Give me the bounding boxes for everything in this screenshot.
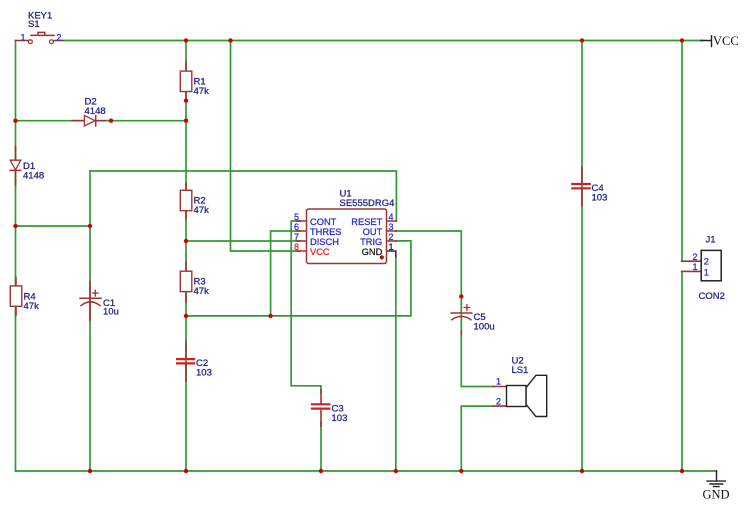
svg-text:6: 6 (294, 222, 299, 232)
wire C1 branch vertical x90 (89, 171, 91, 471)
op-amp U1 left pin stubs 5,6,7 (297, 221, 307, 241)
node C1 bottom rail (88, 469, 92, 473)
wire GND pin1 to rail (395, 256, 397, 471)
node C2 bottom rail (184, 469, 188, 473)
GND symbol drop wire (716, 471, 718, 480)
svg-text:4: 4 (389, 212, 394, 222)
capacitor C5 bottom stub tick (460, 331, 462, 335)
node D2 left (13, 119, 17, 123)
op-amp U1 pin 8 VCC stub (297, 250, 307, 252)
speaker U2 pin stubs (493, 387, 507, 407)
svg-text:4148: 4148 (85, 106, 106, 117)
capacitor C3 stubs (320, 390, 322, 426)
svg-text:1: 1 (704, 268, 709, 278)
svg-text:GND: GND (703, 488, 730, 502)
node THRES junction (268, 314, 272, 318)
node speaker rail (459, 469, 463, 473)
svg-text:103: 103 (592, 193, 608, 204)
wire C3 bottom to rail (320, 422, 322, 471)
wire top VCC rail (64, 40, 703, 42)
node J1 bottom rail (680, 469, 684, 473)
diode D2 stubs (72, 120, 105, 122)
node y226 right (88, 224, 92, 228)
svg-text:CON2: CON2 (699, 291, 725, 302)
wire TRIG row y315.9 (186, 241, 411, 316)
resistor R3 stubs (185, 262, 187, 302)
diode D1 triangle (10, 160, 21, 170)
wire D2 row y120.7 (16, 120, 187, 122)
node C5 top (459, 294, 463, 298)
wire OUT pin3 to C5 and speaker pin1 (396, 231, 494, 387)
svg-text:1: 1 (496, 377, 501, 387)
node C3 bottom rail (319, 469, 323, 473)
switch S1 actuator bar (31, 32, 54, 35)
svg-text:2: 2 (692, 252, 697, 262)
capacitor C4 stubs (581, 167, 583, 206)
svg-text:1: 1 (21, 32, 26, 42)
svg-text:8: 8 (294, 242, 299, 252)
capacitor C4 bottom plate (572, 187, 589, 189)
resistor R2 body (180, 190, 192, 210)
connector J1 body (701, 250, 721, 280)
svg-text:47k: 47k (24, 301, 40, 312)
diode D1 cathode bar (10, 169, 21, 171)
svg-text:SE555DRG4: SE555DRG4 (340, 198, 395, 209)
svg-text:2: 2 (389, 232, 394, 242)
svg-text:J1: J1 (706, 235, 716, 246)
node R3 C2 junction (184, 314, 188, 318)
svg-text:103: 103 (196, 368, 212, 379)
capacitor C5 plus sign (464, 305, 470, 311)
ground symbol bars (707, 481, 725, 487)
svg-text:OUT: OUT (363, 227, 383, 237)
svg-text:VCC: VCC (713, 34, 739, 48)
wire C4 branch x582 (581, 41, 583, 472)
speaker U2 body square (507, 386, 527, 407)
svg-text:47k: 47k (194, 86, 210, 97)
svg-text:TRIG: TRIG (360, 237, 382, 247)
wire long horizontal y171 to RESET (90, 171, 396, 221)
node y226 left (13, 224, 17, 228)
node top rail x186 (184, 38, 188, 42)
wire speaker pin2 to rail (461, 406, 493, 471)
svg-text:2: 2 (704, 257, 709, 267)
svg-text:10u: 10u (103, 307, 119, 318)
svg-text:103: 103 (332, 413, 348, 424)
capacitor C5 curved plate (452, 316, 471, 319)
node junction dots (13, 38, 684, 473)
switch S1 pin stubs (16, 40, 64, 42)
node R2 R3 junction (184, 239, 188, 243)
svg-text:1: 1 (389, 242, 394, 252)
svg-text:47k: 47k (194, 205, 210, 216)
diode D1 stubs (15, 147, 17, 185)
wire left vertical from S1 pin1 down to bottom rail (15, 41, 17, 472)
svg-text:100u: 100u (474, 322, 495, 333)
wire VCC pin8 branch (231, 41, 301, 252)
node top rail x682 (680, 38, 684, 42)
capacitor C1 stubs (89, 282, 91, 321)
capacitor C1 plus sign (93, 290, 99, 296)
capacitor C1 top plate (80, 297, 101, 299)
node R1 bottom (184, 98, 188, 102)
wire J1 branch lower (681, 271, 683, 471)
capacitor C4 top plate (572, 183, 589, 185)
wire THRES pin6 branch (271, 231, 300, 316)
capacitor C3 bottom plate (312, 408, 329, 410)
op-amp U1 pin 1 GND stub (387, 251, 396, 257)
wire node junction row y226 (16, 225, 91, 227)
node D2 cathode (109, 119, 113, 123)
svg-text:2: 2 (496, 396, 501, 406)
wire bottom rail (16, 470, 717, 472)
node C4 bottom rail (580, 469, 584, 473)
resistor R1 body (180, 71, 192, 91)
svg-text:VCC: VCC (310, 247, 330, 257)
node top rail x582 (580, 38, 584, 42)
capacitor C3 top plate (312, 403, 329, 405)
svg-text:5: 5 (294, 212, 299, 222)
switch S1 contact circle pin1 (29, 40, 33, 44)
svg-text:3: 3 (389, 222, 394, 232)
svg-text:GND: GND (362, 247, 383, 257)
capacitor C2 stubs (185, 341, 187, 381)
op-amp U1 body (307, 209, 387, 264)
resistor R3 body (180, 271, 192, 291)
wire CONT pin5 to C3 (291, 221, 321, 392)
connector J1 pin stubs (682, 261, 702, 271)
resistor R4 stubs (15, 278, 17, 316)
node GND pin rail (394, 469, 398, 473)
svg-text:2: 2 (57, 32, 62, 42)
VCC supply symbol (701, 36, 712, 47)
svg-text:LS1: LS1 (512, 365, 529, 376)
svg-text:47k: 47k (194, 286, 210, 297)
node D2 x186 (184, 119, 188, 123)
op-amp U1 polarity dot (380, 255, 384, 259)
svg-text:DISCH: DISCH (310, 237, 339, 247)
op-amp U1 right pin stubs 4,3,2 (387, 221, 397, 241)
diode D2 cathode bar (95, 115, 97, 126)
svg-text:4148: 4148 (23, 171, 44, 182)
capacitor C2 top plate (177, 358, 194, 360)
resistor R1 stubs (185, 62, 187, 97)
resistor R4 body (10, 286, 21, 306)
svg-text:RESET: RESET (351, 217, 382, 227)
capacitor C2 bottom plate (177, 362, 194, 364)
wire J1 branch upper (681, 41, 683, 262)
node top rail x230 (228, 38, 232, 42)
speaker U2 horn (526, 375, 547, 416)
svg-text:S1: S1 (28, 19, 40, 30)
svg-text:1: 1 (692, 262, 697, 272)
svg-text:CONT: CONT (310, 217, 337, 227)
svg-text:7: 7 (294, 232, 299, 242)
svg-text:THRES: THRES (310, 227, 342, 237)
switch S1 contact circle pin2 (50, 40, 54, 44)
capacitor C5 top plate (451, 312, 472, 314)
diode D2 triangle (84, 115, 95, 126)
wire DISCH pin7 branch (186, 240, 300, 242)
capacitor C1 curved plate (81, 302, 100, 306)
wire main vertical x186 (185, 41, 187, 472)
resistor R2 stubs (185, 183, 187, 219)
